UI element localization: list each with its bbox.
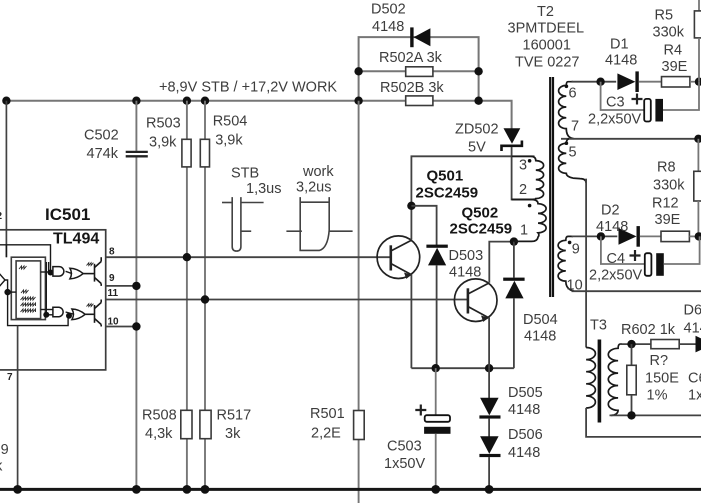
- wire Q501 collector to T2 pin3: [411, 156, 534, 240]
- resistor R502A 3k: [379, 50, 443, 76]
- transistor internal Q-B: [85, 300, 101, 327]
- resistor R508 4,3k: [142, 408, 192, 443]
- svg-text:330k: 330k: [653, 178, 685, 194]
- polarity dot pin6: [565, 85, 569, 89]
- node pin9-C502: [132, 282, 140, 290]
- node and1 in: [48, 270, 54, 276]
- node rail-R504: [201, 97, 209, 105]
- wire winding6 top net: [572, 81, 617, 83]
- svg-text:D1: D1: [610, 37, 629, 53]
- wire pin8 net: [106, 256, 391, 258]
- wire and1-or1: [66, 271, 72, 273]
- wire pin7 net: [561, 138, 698, 140]
- svg-text:2SC2459: 2SC2459: [450, 221, 513, 238]
- svg-text:414: 414: [684, 321, 701, 337]
- svg-text:4148: 4148: [524, 329, 556, 345]
- node R602-R?: [627, 340, 635, 348]
- svg-text:1,3us: 1,3us: [246, 181, 281, 197]
- diode D503 4148: [426, 245, 483, 281]
- wire D1 to R4: [639, 81, 662, 83]
- polarity dot pin9: [568, 241, 572, 245]
- svg-text:3k: 3k: [225, 426, 241, 442]
- svg-text:C503: C503: [387, 439, 422, 455]
- wire R503 vertical: [186, 101, 188, 490]
- node pin10-C502: [132, 322, 140, 330]
- node D502-right-rail: [474, 97, 482, 105]
- svg-text:R504: R504: [213, 114, 248, 130]
- diode D2 4148: [596, 203, 640, 247]
- wire R602 to D6: [679, 343, 695, 345]
- svg-text:3PMTDEEL: 3PMTDEEL: [508, 21, 585, 37]
- diode D505 4148: [479, 368, 542, 418]
- svg-text:474k: 474k: [87, 146, 119, 162]
- svg-text:5V: 5V: [468, 140, 486, 156]
- T3 secondary winding: [608, 344, 622, 415]
- svg-text:R502A 3k: R502A 3k: [379, 50, 443, 66]
- T2 primary winding 2-1: [512, 200, 546, 242]
- svg-text:C6: C6: [688, 371, 701, 387]
- wire pin5 down x586: [585, 179, 587, 348]
- svg-text:4148: 4148: [605, 53, 637, 69]
- T2 core: [550, 77, 553, 297]
- svg-text:9: 9: [109, 273, 115, 284]
- wire R502A row: [359, 70, 479, 72]
- T2 primary winding 3-2: [512, 156, 544, 199]
- svg-text:4148: 4148: [508, 402, 540, 418]
- svg-text:11: 11: [108, 288, 119, 299]
- svg-text:4148: 4148: [508, 445, 540, 461]
- resistor R503 3,9k: [146, 116, 191, 167]
- T2 secondary winding 6-7: [559, 82, 574, 139]
- svg-text:D2: D2: [601, 203, 620, 219]
- polarity dot pin1 winding: [528, 204, 532, 208]
- waveform work icon: [286, 197, 352, 250]
- svg-text:D502: D502: [371, 2, 406, 18]
- resistor R504 3,9k: [200, 114, 247, 167]
- hatch QA: [87, 263, 94, 266]
- svg-text:R509: R509: [0, 442, 9, 458]
- polarity dot pin5: [565, 141, 569, 145]
- logic gate OR2: [72, 309, 85, 320]
- node rail-C502: [132, 97, 140, 105]
- wire +8,9V rail: [6, 100, 478, 102]
- wire R504 vertical: [204, 101, 206, 490]
- node gnd R517: [201, 485, 210, 494]
- svg-text:150E: 150E: [645, 371, 679, 387]
- comparator fragment left edge: [0, 272, 5, 288]
- svg-text:4148: 4148: [372, 19, 404, 35]
- svg-text:D503: D503: [449, 248, 484, 264]
- svg-text:330k: 330k: [653, 25, 685, 41]
- wire pin11 net: [106, 299, 468, 301]
- resistor R? 150E 1%: [627, 344, 679, 415]
- wire IC pin2 entry: [5, 245, 7, 257]
- node rail-left: [2, 97, 10, 105]
- resistor R501 2,2E: [310, 406, 364, 441]
- resistor R602 1k: [621, 322, 679, 349]
- svg-text:2SC2459: 2SC2459: [416, 185, 479, 202]
- flip-flop box outer: [11, 257, 45, 319]
- capacitor C503 1x50V: [384, 368, 451, 489]
- wire pin10 net: [572, 290, 701, 292]
- diode D1 4148: [605, 37, 639, 93]
- node gnd R508: [183, 485, 192, 494]
- svg-text:160001: 160001: [523, 38, 571, 54]
- wire Q502 emitter down: [488, 318, 490, 369]
- svg-text:TL494: TL494: [53, 231, 99, 248]
- wire R12 right to node: [689, 235, 698, 237]
- svg-text:R508: R508: [142, 408, 177, 424]
- svg-text:Q501: Q501: [427, 168, 464, 185]
- resistor R8 330k: [653, 160, 701, 238]
- node D502-left-rail: [354, 97, 362, 105]
- wire and2-or2: [66, 312, 74, 314]
- svg-text:4148: 4148: [596, 219, 628, 235]
- svg-text:9: 9: [572, 242, 580, 258]
- svg-text:2,2x50V: 2,2x50V: [588, 112, 642, 128]
- node rail-R503: [183, 97, 191, 105]
- diode D502: [371, 2, 430, 48]
- capacitor C3 2,2x50V: [588, 82, 699, 128]
- hatch QB: [87, 304, 94, 307]
- wire ff out verticals: [41, 262, 53, 315]
- flip-flop box inner: [16, 261, 40, 319]
- wire pin7 to ground rail: [17, 326, 19, 490]
- wire pin9 net: [572, 235, 618, 237]
- svg-text:work: work: [302, 164, 334, 180]
- T3 primary winding: [586, 348, 595, 409]
- polarity dot pin3: [528, 159, 532, 163]
- transistor Q501 2SC2459: [377, 168, 478, 279]
- svg-text:D506: D506: [508, 427, 543, 443]
- wire D502 top loop: [359, 37, 479, 101]
- node T3-R? bottom: [627, 411, 635, 419]
- diode D504 4148: [503, 242, 557, 369]
- svg-text:8: 8: [109, 247, 115, 258]
- svg-text:7: 7: [7, 372, 13, 383]
- wire C502 vertical: [135, 101, 137, 490]
- wire comparator out: [5, 280, 68, 326]
- svg-text:3,9k: 3,9k: [215, 133, 243, 149]
- resistor R517 3k: [200, 408, 251, 443]
- wire left vertical x6.4 (pin2): [5, 101, 7, 258]
- svg-text:R501: R501: [310, 406, 345, 422]
- node emitter-D505: [485, 364, 493, 372]
- wire Q501 emitter down: [410, 275, 412, 369]
- node R4-R5-C3: [695, 78, 701, 86]
- wire D502-R501 vertical x358.6: [358, 101, 360, 503]
- svg-text:ZD502: ZD502: [455, 122, 499, 138]
- wire T3 primary bottom out: [586, 408, 701, 437]
- transistor Q502 2SC2459: [450, 205, 513, 322]
- node comparator-ff: [4, 289, 10, 295]
- svg-text:39E: 39E: [655, 212, 681, 228]
- node pin8-R503: [183, 253, 191, 261]
- svg-text:2,2x50V: 2,2x50V: [589, 268, 643, 284]
- svg-text:R517: R517: [217, 408, 252, 424]
- svg-text:Q502: Q502: [462, 205, 499, 222]
- resistor R4 39E: [662, 43, 690, 88]
- node Q501 collector / D503: [407, 202, 415, 210]
- hatch marks flip-flop: [19, 266, 36, 312]
- node gnd pin7: [13, 485, 22, 494]
- svg-text:C4: C4: [607, 251, 626, 267]
- svg-text:R12: R12: [652, 196, 679, 212]
- svg-text:R503: R503: [146, 116, 181, 132]
- T3 core: [598, 340, 602, 423]
- svg-text:D505: D505: [508, 385, 543, 401]
- svg-text:R5: R5: [655, 8, 674, 24]
- ground bottom rail: [0, 488, 701, 491]
- wire emitter rail y368: [411, 367, 514, 369]
- svg-text:39E: 39E: [662, 59, 688, 75]
- resistor R5 330k: [653, 0, 701, 82]
- svg-text:7: 7: [571, 119, 579, 135]
- svg-text:1%: 1%: [647, 388, 668, 404]
- svg-text:5: 5: [569, 145, 577, 161]
- node D1-C3: [596, 78, 604, 86]
- svg-text:6: 6: [569, 86, 577, 102]
- node and2 in: [43, 312, 49, 318]
- wire Q502 collector: [489, 242, 514, 283]
- node D502-left-A: [354, 67, 362, 75]
- zener ZD502 5V: [455, 122, 522, 156]
- logic gate AND1: [53, 267, 64, 277]
- node gnd C503: [431, 485, 440, 494]
- node T2 pin1 / D504: [510, 237, 518, 245]
- svg-text:R502B 3k: R502B 3k: [380, 80, 444, 96]
- T2 secondary winding 7-5: [559, 139, 587, 183]
- svg-text:3: 3: [519, 158, 527, 174]
- svg-text:+8,9V STB / +17,2V WORK: +8,9V STB / +17,2V WORK: [159, 80, 337, 96]
- svg-text:4,3k: 4,3k: [145, 426, 173, 442]
- svg-text:R4: R4: [664, 43, 683, 59]
- wire D503 branch: [411, 206, 436, 246]
- wire rail jog to ZD502: [479, 101, 512, 130]
- wire D2 to R12: [640, 235, 661, 237]
- node gnd C502: [132, 485, 141, 494]
- capacitor C502 474k: [84, 128, 148, 163]
- op-amp U-IC501 box TL494: [0, 205, 106, 370]
- T2 secondary winding 9-10: [558, 236, 574, 291]
- resistor R502B 3k: [380, 80, 444, 106]
- node emitter-C503: [432, 364, 440, 372]
- logic gate AND2: [53, 307, 63, 316]
- resistor R12 39E: [652, 196, 689, 242]
- wire R4 right to node: [690, 81, 699, 83]
- node D502-right-A: [474, 67, 482, 75]
- svg-text:3,2us: 3,2us: [296, 180, 331, 196]
- logic gate OR1: [70, 268, 83, 279]
- wire ZD502 to T2 pin2 tap: [512, 147, 531, 200]
- wire IC internal top feed: [0, 245, 51, 273]
- svg-text:D504: D504: [523, 312, 558, 328]
- transistor internal Q-A: [83, 257, 101, 286]
- svg-text:C3: C3: [606, 95, 625, 111]
- node D2-C4: [597, 232, 605, 240]
- waveform STB icon: [222, 197, 264, 251]
- diode D6 4148 (cut): [684, 303, 701, 353]
- svg-text:IC501: IC501: [45, 205, 90, 224]
- capacitor C4 2,2x50V: [589, 236, 700, 283]
- svg-text:1x50V: 1x50V: [384, 456, 425, 472]
- svg-text:2: 2: [519, 182, 527, 198]
- svg-text:R602 1k: R602 1k: [621, 322, 676, 338]
- node or2 in: [66, 313, 72, 319]
- svg-text:T2: T2: [537, 4, 554, 20]
- svg-text:T3: T3: [590, 318, 607, 334]
- node R12-R8-C4: [695, 232, 701, 240]
- wire ff input: [8, 291, 17, 293]
- svg-text:2,2E: 2,2E: [311, 426, 341, 442]
- svg-text:STB: STB: [231, 166, 259, 182]
- svg-text:R8: R8: [657, 160, 676, 176]
- wire pin9 net: [106, 285, 137, 287]
- svg-text:TVE 0227: TVE 0227: [515, 55, 580, 71]
- node pin11-R504: [201, 295, 209, 303]
- wire T3 sec bottom rail: [610, 414, 701, 416]
- wire T3 sec top to R602: [620, 343, 651, 345]
- svg-text:D6: D6: [684, 303, 701, 319]
- svg-text:1: 1: [520, 223, 528, 239]
- svg-text:3,9k: 3,9k: [149, 135, 177, 151]
- wire pin10 net: [106, 326, 137, 328]
- wire pin7 to R8: [694, 135, 701, 172]
- svg-text:1x5: 1x5: [688, 388, 701, 404]
- diode D506 4148: [479, 419, 542, 490]
- node gnd D506: [485, 485, 494, 494]
- svg-text:C502: C502: [84, 128, 119, 144]
- wire D503 to emitter rail: [436, 265, 438, 368]
- svg-text:R?: R?: [650, 353, 669, 369]
